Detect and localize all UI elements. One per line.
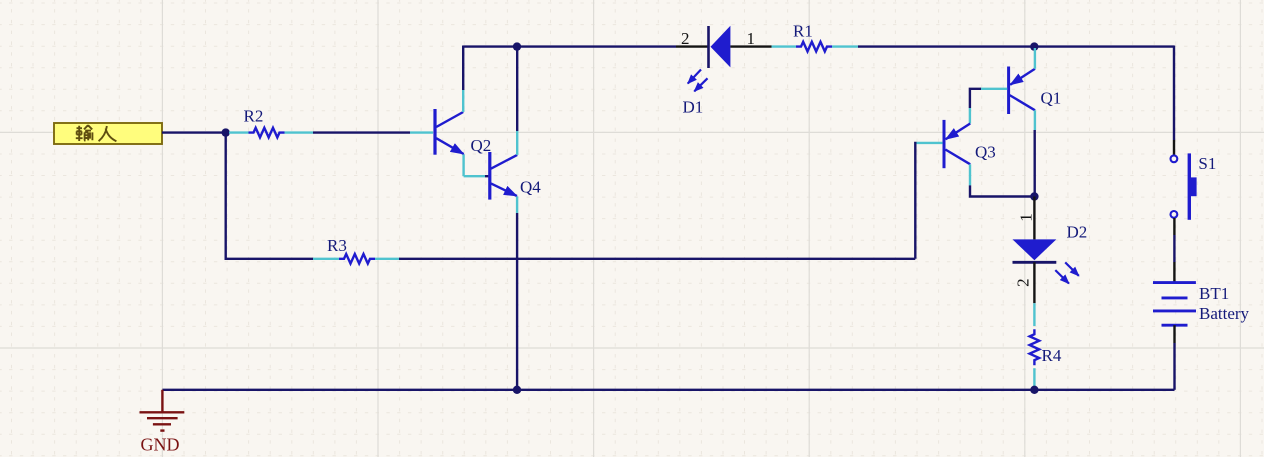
svg-text:GND: GND [141, 435, 180, 455]
svg-text:S1: S1 [1198, 154, 1216, 173]
node junction bottom-left [513, 386, 521, 394]
node junction top-left [513, 42, 521, 50]
wire rail to S1 [1173, 46, 1175, 141]
ground GND [161, 390, 163, 413]
wire bottom rail [162, 389, 1174, 391]
svg-text:2: 2 [681, 29, 690, 48]
node junction input [222, 128, 230, 136]
wire R2 to Q2 base [313, 131, 410, 133]
diode D2 LED [1033, 197, 1035, 240]
wire Q1 collector down [1034, 110, 1036, 130]
wire Q4 emitter down [516, 197, 518, 214]
wire Q3 collector down [969, 164, 971, 185]
svg-text:D2: D2 [1067, 223, 1088, 242]
wire R3 right [399, 258, 915, 260]
resistor R1 [772, 45, 797, 47]
resistor R3 [313, 258, 339, 260]
transistor Q2 [433, 109, 436, 155]
node junction top-right [1030, 42, 1038, 50]
transistor Q4 [488, 152, 491, 200]
wire Q2 emitter to Q4 base [462, 155, 464, 177]
svg-text:Q2: Q2 [471, 136, 492, 155]
wire Q1 emitter up [1034, 48, 1036, 69]
svg-text:R2: R2 [244, 107, 264, 126]
svg-text:1: 1 [1017, 213, 1036, 222]
svg-text:D1: D1 [683, 98, 704, 117]
wire input to node [162, 131, 223, 133]
svg-text:R4: R4 [1042, 346, 1062, 365]
transistor Q1 [1007, 67, 1010, 115]
svg-text:Q4: Q4 [520, 178, 541, 197]
wire Q2 collector up [462, 90, 464, 112]
svg-text:1: 1 [747, 29, 756, 48]
wire top rail [463, 45, 676, 47]
svg-text:Q1: Q1 [1041, 89, 1062, 108]
resistor R4 [1033, 303, 1035, 326]
battery BT1 [1153, 281, 1196, 284]
svg-text:R1: R1 [793, 22, 813, 41]
svg-text:2: 2 [1013, 278, 1032, 287]
wire Q3 base [917, 142, 943, 144]
wire Q1 base to Q3 [980, 88, 1007, 90]
svg-text:Q3: Q3 [975, 143, 996, 162]
svg-text:R3: R3 [327, 236, 347, 255]
resistor R2 [229, 131, 249, 133]
wire S1 to BT1 [1173, 218, 1175, 235]
switch S1 [1171, 155, 1178, 162]
wire R1 to right [858, 45, 1174, 47]
node junction bottom-right [1030, 386, 1038, 394]
port 输入 (input) [54, 123, 162, 144]
wire Q4 collector up [516, 131, 518, 155]
wire node to R3 row [226, 136, 313, 259]
svg-text:BT1: BT1 [1199, 284, 1229, 303]
node junction D2 [1030, 192, 1038, 200]
svg-text:Battery: Battery [1199, 304, 1250, 323]
transistor Q3 [943, 120, 946, 168]
diode D1 LED [676, 45, 708, 47]
wire BT1 down [1173, 325, 1175, 343]
